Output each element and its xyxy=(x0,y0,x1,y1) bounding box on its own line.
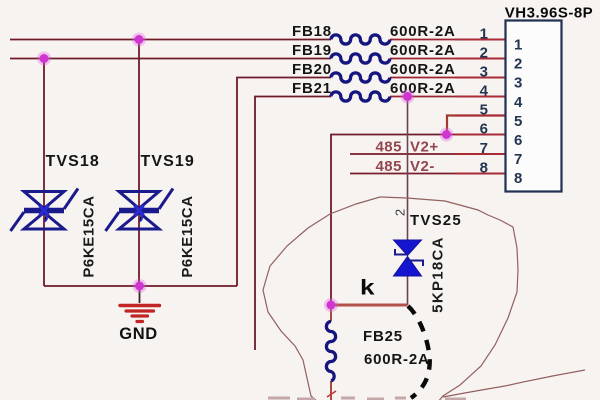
svg-text:4: 4 xyxy=(480,83,489,100)
wire net B row2 xyxy=(10,58,331,60)
junction dot bus/GND xyxy=(133,279,147,293)
svg-text:600R-2A: 600R-2A xyxy=(364,351,430,368)
wire row8 485V2- xyxy=(350,173,506,175)
wire row7 485V2+ xyxy=(350,153,506,155)
ferrite bead FB25 coil xyxy=(326,322,335,382)
svg-text:7: 7 xyxy=(514,151,522,168)
wire row3 with vertical to bus xyxy=(237,78,331,287)
svg-text:k: k xyxy=(360,277,375,300)
svg-text:6: 6 xyxy=(514,132,522,149)
wire row6 pin6 net xyxy=(331,135,506,306)
ferrite bead FB20 xyxy=(331,73,390,82)
wire FB25 bottom xyxy=(330,381,332,400)
svg-text:2: 2 xyxy=(480,45,488,62)
svg-text:FB19: FB19 xyxy=(292,42,332,59)
junction dot pin5/pin6 xyxy=(440,128,454,142)
bright stubs at connector xyxy=(455,40,506,174)
svg-text:1: 1 xyxy=(480,26,488,43)
junction dot node k xyxy=(324,298,338,312)
junction dot row1/TVS19 xyxy=(132,33,146,47)
svg-text:5: 5 xyxy=(480,102,488,119)
ground symbol xyxy=(139,286,141,303)
svg-text:600R-2A: 600R-2A xyxy=(390,42,456,59)
svg-text:VH3.96S-8P: VH3.96S-8P xyxy=(505,5,593,22)
svg-text:TVS25: TVS25 xyxy=(410,212,462,229)
svg-text:FB21: FB21 xyxy=(292,80,332,97)
svg-text:6: 6 xyxy=(480,121,488,138)
wire row3 right xyxy=(390,77,506,79)
svg-text:600R-2A: 600R-2A xyxy=(390,23,456,40)
svg-text:600R-2A: 600R-2A xyxy=(390,80,456,97)
svg-text:485: 485 xyxy=(375,158,402,175)
wire row4 with vertical stub xyxy=(255,97,331,351)
svg-text:600R-2A: 600R-2A xyxy=(390,61,456,78)
wire node k horizontal xyxy=(331,304,408,307)
svg-text:TVS19: TVS19 xyxy=(141,153,195,170)
svg-text:2: 2 xyxy=(514,56,522,73)
svg-text:P6KE15CA: P6KE15CA xyxy=(81,195,98,277)
wire TVS25 vertical xyxy=(407,97,409,241)
annotation dashed arc xyxy=(408,306,430,398)
TVS18 junction X mark xyxy=(40,206,49,222)
junction dot row4/TVS25 xyxy=(401,90,415,104)
svg-text:2: 2 xyxy=(393,209,408,216)
svg-text:7: 7 xyxy=(480,140,488,157)
svg-text:3: 3 xyxy=(514,75,522,92)
TVS diode TVS25 xyxy=(394,240,424,276)
svg-text:GND: GND xyxy=(119,325,157,343)
wire TVS18 vertical xyxy=(43,59,45,287)
annotation blob outline xyxy=(263,197,518,400)
svg-text:3: 3 xyxy=(480,64,488,81)
TVS diode TVS18 xyxy=(11,189,79,232)
svg-text:8: 8 xyxy=(514,170,522,187)
svg-text:TVS18: TVS18 xyxy=(46,153,100,170)
wire row1 right xyxy=(390,39,506,41)
svg-text:5: 5 xyxy=(514,113,522,130)
svg-text:V2-: V2- xyxy=(410,158,435,175)
annotation red tick xyxy=(327,391,336,397)
wire net A row1 xyxy=(10,39,331,41)
wire TVS25 bottom xyxy=(407,276,409,305)
wire pin5 jog xyxy=(447,116,506,135)
wire ground bus xyxy=(44,285,237,287)
svg-text:485: 485 xyxy=(375,139,402,156)
svg-text:4: 4 xyxy=(514,94,523,111)
annotation curve bottom right xyxy=(443,370,585,397)
svg-text:FB18: FB18 xyxy=(292,23,332,40)
wire row2 right xyxy=(390,58,506,60)
TVS diode TVS19 xyxy=(106,189,174,232)
wire row4 right xyxy=(390,96,506,98)
svg-text:FB20: FB20 xyxy=(292,61,332,78)
svg-text:8: 8 xyxy=(480,160,488,177)
TVS19 junction X mark xyxy=(135,206,144,222)
ferrite bead FB21 xyxy=(331,92,390,101)
wire FB25 top xyxy=(330,305,332,322)
svg-text:FB25: FB25 xyxy=(363,328,403,345)
svg-text:5KP18CA: 5KP18CA xyxy=(430,236,447,313)
ferrite bead FB19 xyxy=(331,54,390,63)
svg-text:1: 1 xyxy=(514,37,522,54)
svg-text:V2+: V2+ xyxy=(410,139,439,156)
junction dot row2/TVS18 xyxy=(37,52,51,66)
wire TVS19 vertical xyxy=(138,40,140,287)
svg-text:P6KE15CA: P6KE15CA xyxy=(179,195,196,277)
connector U1 VH3.96S-8P body xyxy=(506,21,562,192)
ferrite bead FB18 xyxy=(331,35,390,44)
cut-off text row bottom xyxy=(268,397,466,400)
